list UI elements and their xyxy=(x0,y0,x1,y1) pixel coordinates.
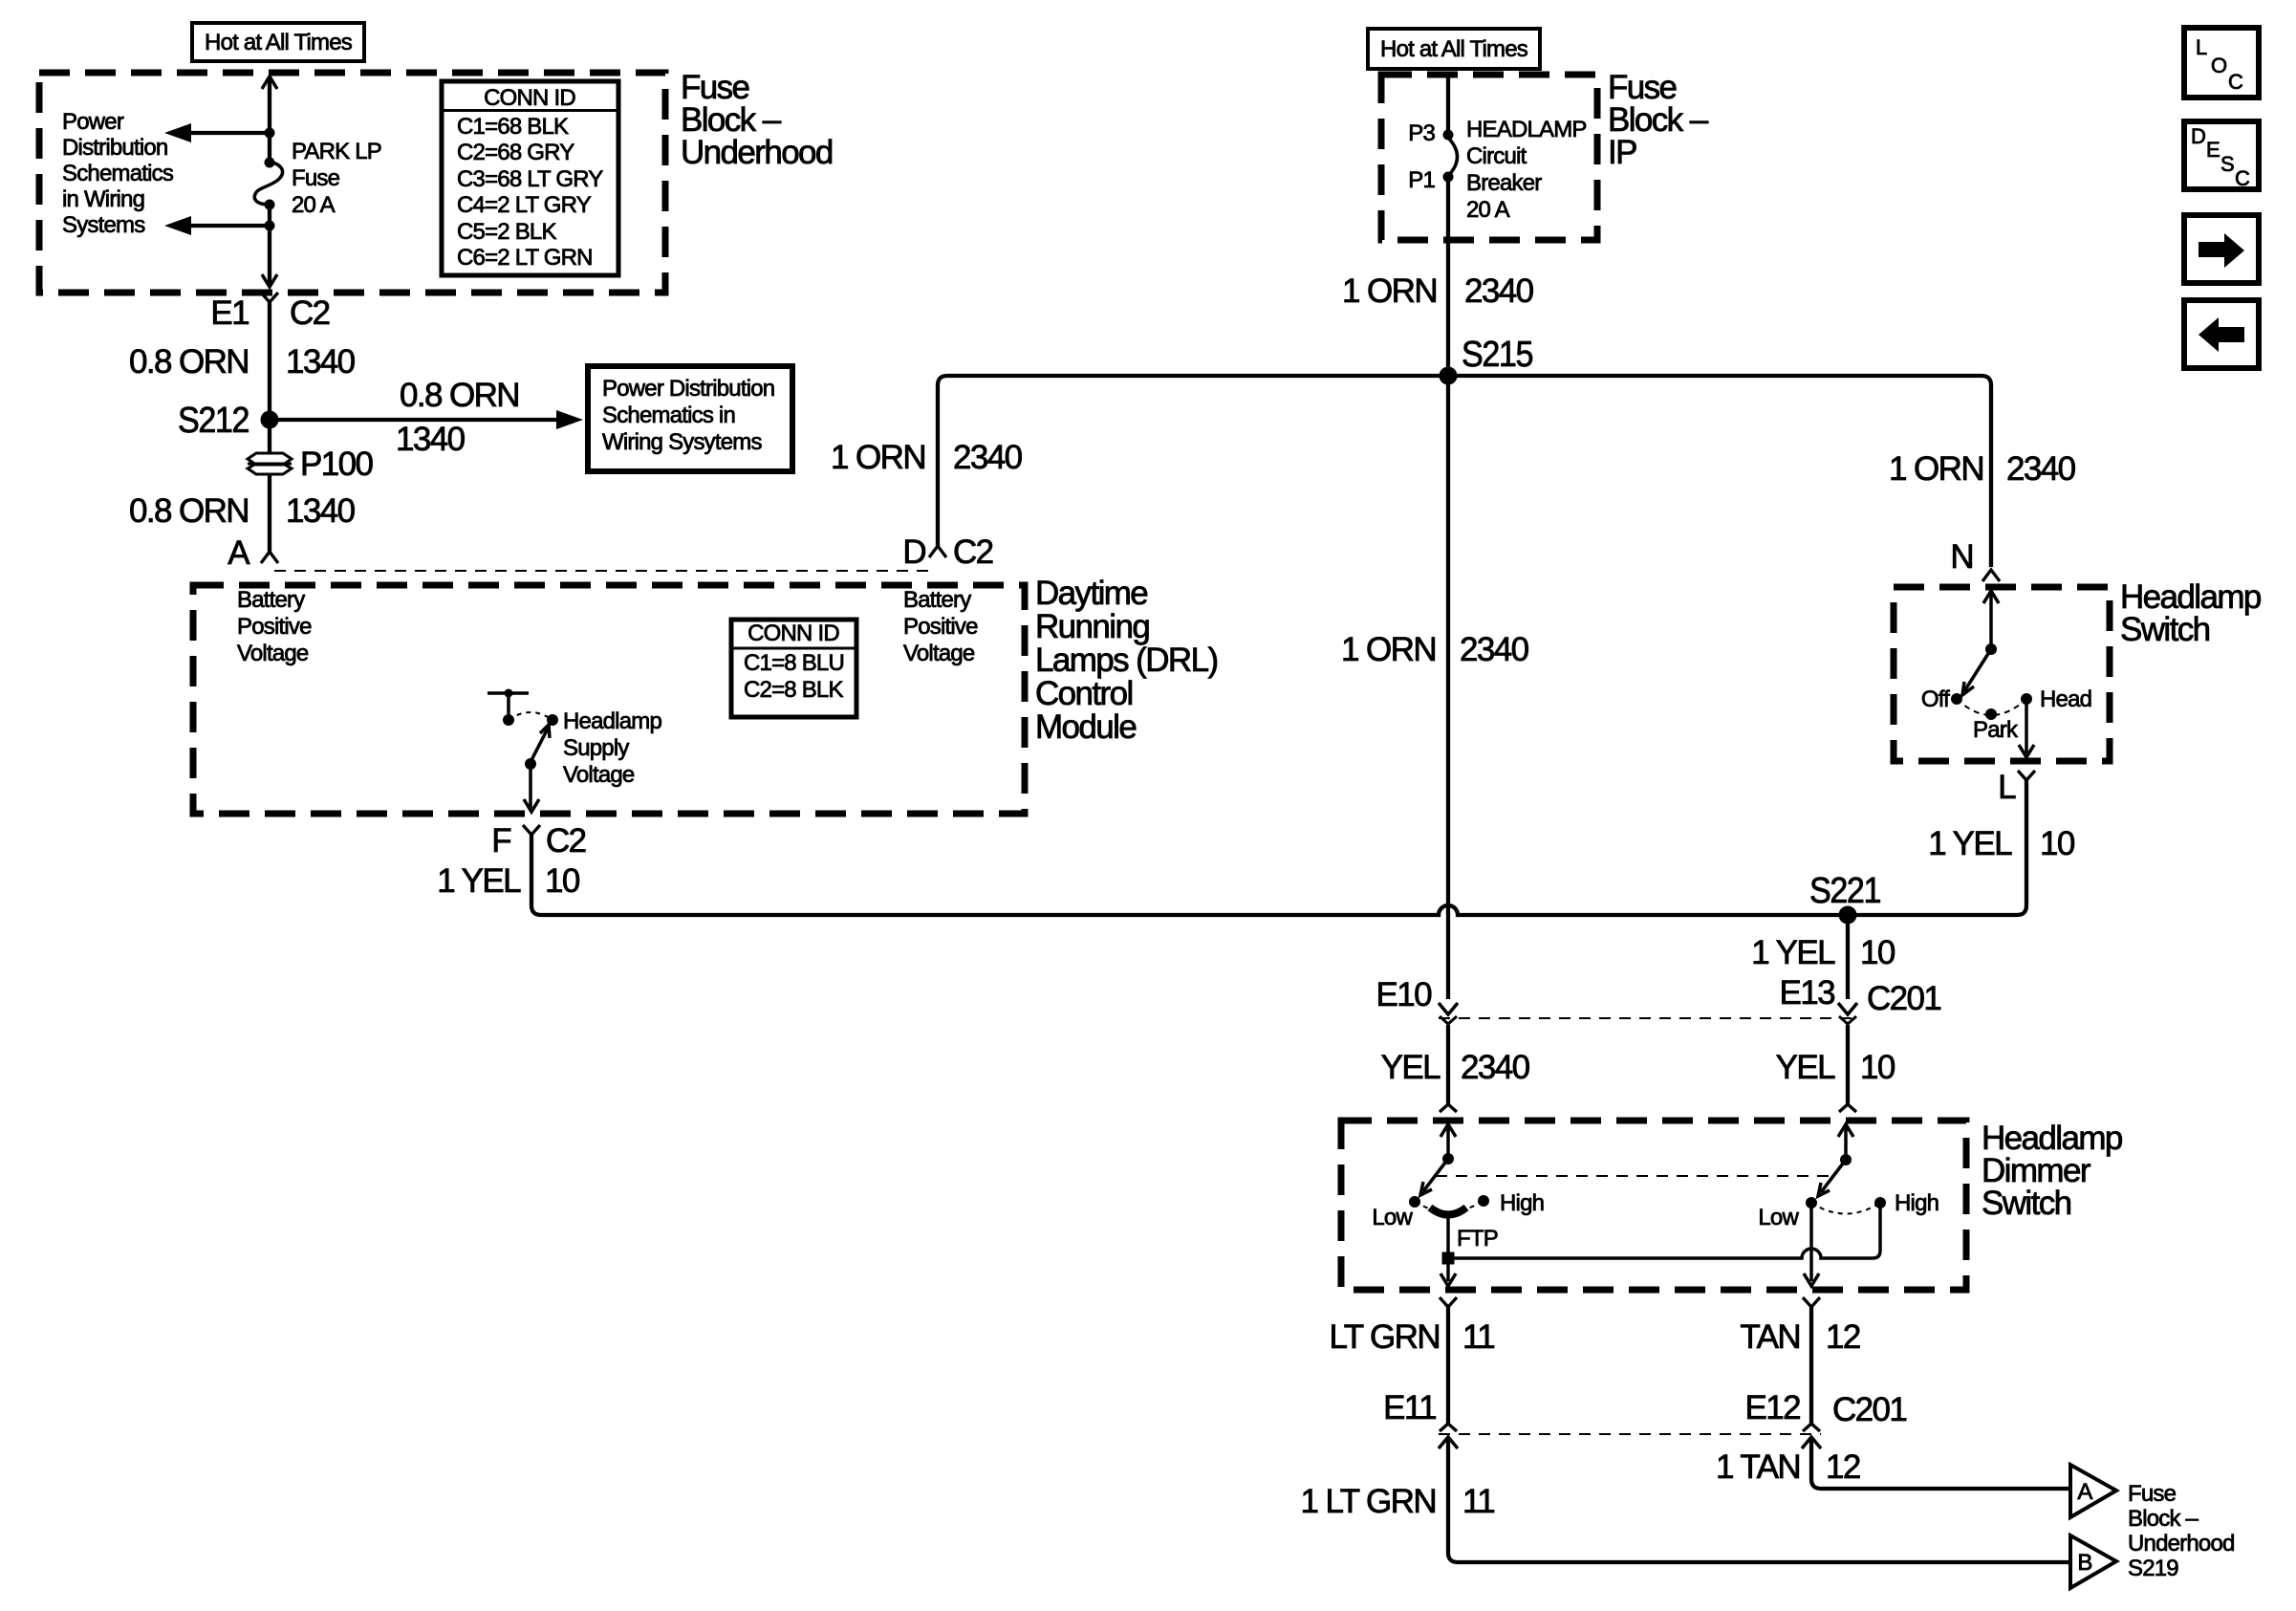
svg-text:C2: C2 xyxy=(546,822,586,860)
connector E1/C2 female Y xyxy=(261,293,278,302)
DRL internal switch xyxy=(487,691,529,695)
svg-text:P3: P3 xyxy=(1408,120,1435,146)
svg-text:E10: E10 xyxy=(1376,976,1433,1013)
svg-text:E1: E1 xyxy=(210,294,249,332)
ref box Power Distribution Schematics in Wiring Sysytems xyxy=(588,366,792,471)
svg-text:Lamps (DRL): Lamps (DRL) xyxy=(1035,642,1218,679)
connector P100 grommet xyxy=(248,453,292,465)
svg-text:C2: C2 xyxy=(290,294,330,332)
dimmer left switch xyxy=(1440,1124,1456,1137)
svg-text:0.8 ORN: 0.8 ORN xyxy=(400,377,519,414)
wire long YEL run with hop over ORN wire xyxy=(531,780,2026,915)
svg-text:C2: C2 xyxy=(953,533,993,571)
wire S215 branch to D and N xyxy=(938,376,1991,567)
headlamp switch internals xyxy=(1983,591,1999,603)
svg-text:Battery: Battery xyxy=(237,587,305,613)
node S215 splice xyxy=(1440,367,1458,385)
wire S212 to P100 xyxy=(268,420,271,453)
wire - fuse output vertical xyxy=(268,205,271,284)
wire E11 to triangle B xyxy=(1448,1437,2069,1562)
svg-text:2340: 2340 xyxy=(1460,631,1529,668)
svg-text:C4=2 LT GRY: C4=2 LT GRY xyxy=(457,192,592,218)
wire E1 to S212 xyxy=(268,300,271,420)
connector table CONN ID (DRL) xyxy=(731,620,856,717)
svg-text:L: L xyxy=(2196,35,2207,59)
wire breaker down to E10 xyxy=(1446,176,1450,999)
svg-text:S: S xyxy=(2220,152,2234,176)
C201 connector dashed line (upper) xyxy=(1439,1017,1854,1019)
arrow down dimmer box bottom right xyxy=(1804,1274,1819,1286)
node - feed junction upper xyxy=(265,128,275,139)
svg-text:N: N xyxy=(1950,538,1973,576)
svg-text:C3=68 LT GRY: C3=68 LT GRY xyxy=(457,166,603,192)
fuse block IP dashed box xyxy=(1381,75,1597,240)
svg-text:20 A: 20 A xyxy=(292,192,336,218)
svg-text:P100: P100 xyxy=(300,446,373,483)
svg-text:LT GRN: LT GRN xyxy=(1329,1318,1440,1356)
svg-text:Park: Park xyxy=(1973,717,2019,743)
connector D into DRL module xyxy=(929,546,946,557)
svg-text:10: 10 xyxy=(1860,934,1895,971)
svg-text:YEL: YEL xyxy=(1381,1049,1440,1086)
connector E12 chevron xyxy=(1803,1424,1820,1431)
svg-text:B: B xyxy=(2077,1550,2091,1576)
svg-text:2340: 2340 xyxy=(1464,272,1534,310)
connector N into headlamp switch xyxy=(1982,570,2000,581)
svg-text:2340: 2340 xyxy=(2006,450,2076,488)
svg-text:C2=8 BLK: C2=8 BLK xyxy=(744,677,843,703)
svg-text:1 ORN: 1 ORN xyxy=(831,439,925,476)
arrow down to box edge xyxy=(262,274,277,287)
node FTP junction xyxy=(1442,1252,1455,1265)
svg-text:S215: S215 xyxy=(1462,335,1532,375)
svg-text:C2=68 GRY: C2=68 GRY xyxy=(457,140,574,165)
svg-text:D: D xyxy=(2191,124,2205,148)
svg-text:P1: P1 xyxy=(1408,167,1435,193)
svg-text:O: O xyxy=(2211,54,2227,77)
svg-text:12: 12 xyxy=(1826,1448,1860,1486)
arrow down at DRL box bottom xyxy=(524,799,539,812)
label box "Hot at All Times" (center) xyxy=(1368,29,1540,69)
svg-text:Circuit: Circuit xyxy=(1466,143,1527,169)
svg-text:Positive: Positive xyxy=(237,614,312,640)
connector E11 chevron xyxy=(1440,1424,1457,1431)
headlamp switch dashed box xyxy=(1894,587,2110,761)
connector E10 male arrow xyxy=(1439,1003,1458,1014)
node P1 terminal xyxy=(1443,172,1454,183)
C201 connector dashed line (lower) xyxy=(1439,1433,1821,1435)
wire dimmer left to E11 xyxy=(1446,1307,1450,1424)
svg-text:Hot at All Times: Hot at All Times xyxy=(1380,36,1528,62)
wire switch to F exit xyxy=(529,764,532,808)
svg-text:11: 11 xyxy=(1462,1483,1494,1520)
svg-text:1340: 1340 xyxy=(286,492,356,530)
svg-text:10: 10 xyxy=(1860,1049,1895,1086)
arrow left upper branch xyxy=(164,123,191,142)
svg-text:1 YEL: 1 YEL xyxy=(437,862,521,900)
off-page triangle B xyxy=(2070,1535,2116,1588)
svg-text:Off: Off xyxy=(1921,686,1950,712)
svg-text:Wiring Sysytems: Wiring Sysytems xyxy=(602,429,762,455)
svg-text:Fuse: Fuse xyxy=(292,165,340,191)
svg-text:C6=2 LT GRN: C6=2 LT GRN xyxy=(457,245,593,271)
wire P100 to A xyxy=(268,475,271,552)
svg-text:D: D xyxy=(902,533,925,571)
svg-text:Control: Control xyxy=(1035,675,1133,712)
svg-text:Voltage: Voltage xyxy=(237,641,309,666)
wire FTP horizontal with hop xyxy=(1448,1203,1880,1258)
svg-text:Voltage: Voltage xyxy=(563,762,635,788)
wire - upper branch left xyxy=(187,131,270,135)
wire E10 to dimmer box xyxy=(1446,1025,1450,1103)
svg-text:2340: 2340 xyxy=(1461,1049,1530,1086)
svg-text:S212: S212 xyxy=(178,401,249,441)
fuse PARK LP 20A symbol xyxy=(265,158,275,168)
svg-text:1 LT GRN: 1 LT GRN xyxy=(1300,1483,1436,1520)
svg-text:Block –: Block – xyxy=(2128,1506,2199,1532)
circuit breaker curve xyxy=(1448,138,1458,176)
svg-text:FTP: FTP xyxy=(1457,1226,1498,1252)
node S221 splice xyxy=(1839,906,1857,925)
svg-text:Switch: Switch xyxy=(2120,611,2210,648)
svg-text:10: 10 xyxy=(545,862,580,900)
svg-text:Head: Head xyxy=(2040,686,2091,712)
svg-text:E13: E13 xyxy=(1780,974,1835,1012)
svg-text:CONN ID: CONN ID xyxy=(484,85,575,111)
svg-text:F: F xyxy=(491,822,510,860)
svg-text:Schematics: Schematics xyxy=(62,161,174,186)
svg-text:1 ORN: 1 ORN xyxy=(1341,631,1436,668)
wire - lower branch left xyxy=(187,224,270,228)
arrow down dimmer box bottom left xyxy=(1440,1274,1456,1286)
svg-text:C201: C201 xyxy=(1832,1391,1906,1428)
svg-text:Daytime: Daytime xyxy=(1035,575,1147,612)
svg-text:Running: Running xyxy=(1035,608,1149,645)
icon box LOC xyxy=(2184,28,2259,98)
svg-text:1 ORN: 1 ORN xyxy=(1889,450,1983,488)
svg-text:Positive: Positive xyxy=(903,614,978,640)
svg-text:E: E xyxy=(2206,138,2220,162)
svg-text:1340: 1340 xyxy=(396,421,466,458)
arrow left lower branch xyxy=(164,216,191,235)
svg-text:Low: Low xyxy=(1758,1205,1799,1230)
wire right Low output down xyxy=(1809,1203,1813,1281)
svg-text:CONN ID: CONN ID xyxy=(747,620,839,646)
svg-text:Hot at All Times: Hot at All Times xyxy=(205,30,353,55)
svg-text:TAN: TAN xyxy=(1740,1318,1800,1356)
svg-text:Switch: Switch xyxy=(1982,1185,2071,1222)
dimmer switch dashed box xyxy=(1341,1121,1966,1290)
svg-text:1340: 1340 xyxy=(286,343,356,381)
svg-text:Distribution: Distribution xyxy=(62,135,167,161)
mechanical link dashed line xyxy=(1436,1175,1833,1177)
connector A into DRL module xyxy=(261,552,278,563)
svg-text:Headlamp: Headlamp xyxy=(563,708,661,734)
node P3 terminal xyxy=(1443,130,1454,141)
svg-text:YEL: YEL xyxy=(1776,1049,1835,1086)
connector E13 male arrow xyxy=(1838,1003,1857,1014)
connector table CONN ID (underhood) xyxy=(442,81,618,275)
node - feed junction lower xyxy=(265,221,275,231)
svg-text:Power Distribution: Power Distribution xyxy=(602,376,774,402)
svg-text:Systems: Systems xyxy=(62,212,145,238)
icon box right arrow xyxy=(2184,215,2259,283)
svg-text:Underhood: Underhood xyxy=(2128,1531,2235,1557)
svg-text:A: A xyxy=(227,534,250,572)
svg-text:Module: Module xyxy=(1035,708,1136,746)
svg-text:0.8 ORN: 0.8 ORN xyxy=(129,492,249,530)
wire left output down xyxy=(1446,1258,1450,1281)
svg-text:S219: S219 xyxy=(2128,1556,2178,1581)
chevron above dimmer box right xyxy=(1839,1104,1856,1112)
wire into breaker xyxy=(1446,75,1450,137)
svg-text:Breaker: Breaker xyxy=(1466,170,1542,196)
svg-text:20 A: 20 A xyxy=(1466,197,1510,223)
module boundary thin dashed line A-D xyxy=(274,570,929,572)
svg-text:C5=2 BLK: C5=2 BLK xyxy=(457,219,556,245)
svg-text:S221: S221 xyxy=(1809,871,1880,911)
wire dimmer right to E12 xyxy=(1809,1307,1813,1424)
svg-text:0.8 ORN: 0.8 ORN xyxy=(129,343,249,381)
svg-text:10: 10 xyxy=(2040,825,2075,862)
svg-text:Low: Low xyxy=(1372,1205,1413,1230)
svg-text:2340: 2340 xyxy=(953,439,1023,476)
svg-text:C1=68 BLK: C1=68 BLK xyxy=(457,114,569,140)
svg-text:Voltage: Voltage xyxy=(903,641,975,666)
svg-text:L: L xyxy=(1998,769,2016,806)
wire E13 to dimmer box xyxy=(1846,1025,1850,1103)
icon box left arrow xyxy=(2184,300,2259,368)
svg-text:C1=8 BLU: C1=8 BLU xyxy=(744,650,844,676)
svg-text:Fuse: Fuse xyxy=(2128,1481,2177,1507)
svg-text:Battery: Battery xyxy=(903,587,971,613)
off-page triangle A xyxy=(2070,1465,2116,1517)
dimmer right switch xyxy=(1838,1124,1853,1137)
connector E12 male arrow up xyxy=(1802,1437,1821,1448)
label box "Hot at All Times" (left) xyxy=(192,23,364,61)
svg-text:E12: E12 xyxy=(1745,1389,1801,1426)
arrow down at headlamp switch box bottom xyxy=(2019,745,2034,757)
svg-text:High: High xyxy=(1500,1190,1544,1216)
svg-text:in Wiring: in Wiring xyxy=(62,186,144,212)
chevron above dimmer box left xyxy=(1440,1104,1457,1112)
wire S212 to power dist box xyxy=(270,418,572,422)
svg-text:11: 11 xyxy=(1462,1318,1494,1356)
node S212 splice xyxy=(261,411,279,429)
wire Head contact to L exit xyxy=(2025,699,2028,753)
connector E11 male arrow up xyxy=(1439,1437,1458,1448)
connector below dimmer right female Y xyxy=(1803,1297,1820,1307)
icon box DESC xyxy=(2184,121,2259,189)
svg-text:C201: C201 xyxy=(1867,980,1940,1017)
arrow up into hot feed xyxy=(262,76,277,89)
arrow right to power dist box xyxy=(556,410,583,429)
svg-text:HEADLAMP: HEADLAMP xyxy=(1466,117,1587,142)
wire FTP to junction xyxy=(1446,1218,1450,1258)
svg-text:C: C xyxy=(2235,166,2250,190)
svg-text:A: A xyxy=(2077,1479,2092,1505)
svg-text:IP: IP xyxy=(1608,134,1636,171)
svg-text:1 YEL: 1 YEL xyxy=(1751,934,1835,971)
svg-text:Schematics in: Schematics in xyxy=(602,403,735,428)
svg-text:E11: E11 xyxy=(1383,1389,1436,1426)
svg-text:12: 12 xyxy=(1826,1318,1860,1356)
wire S221 down to E13 xyxy=(1846,915,1850,999)
svg-text:Power: Power xyxy=(62,109,124,135)
DRL module dashed box xyxy=(193,585,1025,814)
svg-text:High: High xyxy=(1895,1190,1939,1216)
svg-text:1 ORN: 1 ORN xyxy=(1342,272,1437,310)
connector L female Y xyxy=(2018,771,2035,780)
svg-text:PARK LP: PARK LP xyxy=(292,139,381,164)
wire E12 to triangle A xyxy=(1811,1437,2069,1489)
svg-text:Supply: Supply xyxy=(563,735,629,761)
svg-text:1 YEL: 1 YEL xyxy=(1928,825,2012,862)
fuse block underhood dashed box xyxy=(39,73,665,293)
wire - fuse feed vertical xyxy=(268,76,271,163)
svg-text:1 TAN: 1 TAN xyxy=(1716,1448,1800,1486)
connector F female Y xyxy=(523,825,540,835)
svg-text:C: C xyxy=(2228,70,2243,94)
svg-text:Underhood: Underhood xyxy=(681,134,833,171)
connector below dimmer left female Y xyxy=(1440,1297,1457,1307)
